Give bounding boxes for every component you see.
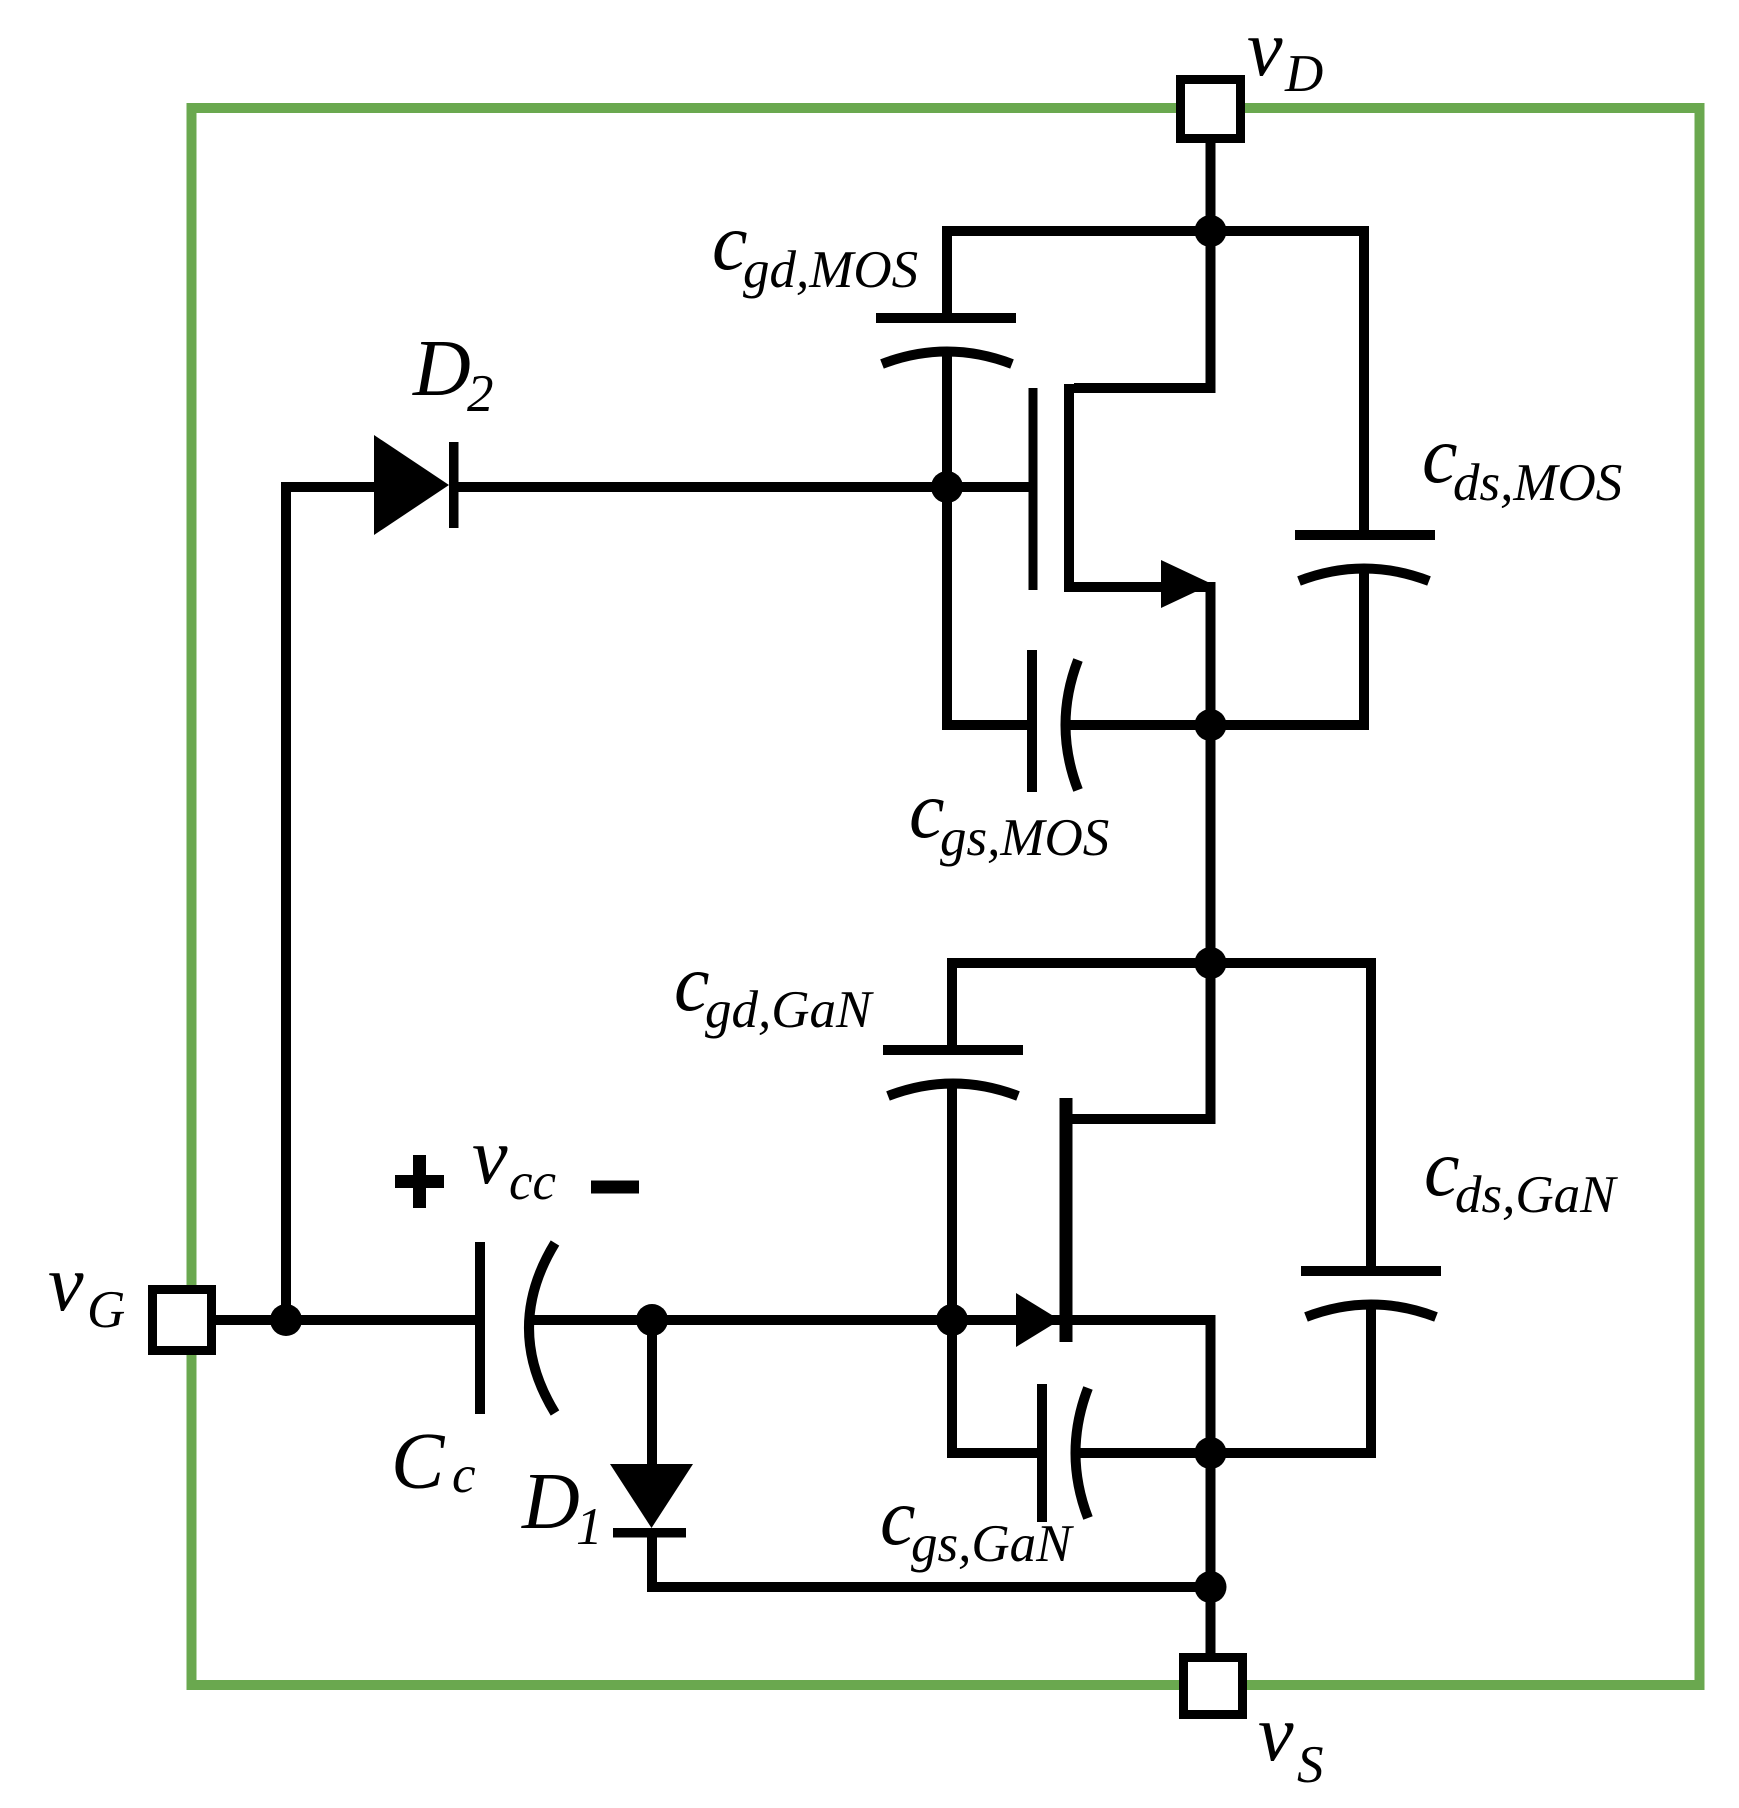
label v_S	[1258, 1690, 1324, 1794]
label Cc	[391, 1418, 476, 1506]
node C junction dot (GaN source)	[1195, 1437, 1227, 1469]
label v_cc	[472, 1113, 556, 1211]
svg-text:D: D	[1284, 45, 1323, 103]
svg-text:ds,MOS: ds,MOS	[1453, 454, 1622, 512]
wire: GaN drain rail with side drops	[952, 963, 1371, 1271]
label plus sign of v_cc	[395, 1155, 444, 1208]
wire: MOS drain lead	[1074, 231, 1211, 388]
label D2	[412, 325, 494, 423]
svg-text:v: v	[472, 1113, 508, 1201]
svg-text:cc: cc	[509, 1153, 556, 1211]
wire: top drain rail with side drops	[947, 231, 1364, 535]
diode D2	[374, 435, 459, 535]
label c_ds,GaN	[1424, 1125, 1618, 1224]
wire: c_ds,MOS bottom run	[1211, 568, 1365, 725]
wire: Cc to GaN gate node	[530, 1315, 952, 1325]
transistor Q2 (GaN HEMT) channel bar	[1060, 1098, 1073, 1342]
wire: MOS gate lead	[947, 482, 1029, 492]
transistor M1 source arrow	[1161, 560, 1212, 608]
svg-text:gs,MOS: gs,MOS	[940, 809, 1109, 867]
svg-text:v: v	[48, 1240, 84, 1328]
node: GaN gate junction dot	[936, 1304, 968, 1336]
node D junction dot (GaN drain)	[1195, 947, 1227, 979]
label c_gd,MOS	[712, 199, 918, 299]
terminal v_G square	[153, 1290, 212, 1351]
svg-text:gd,GaN: gd,GaN	[705, 981, 874, 1039]
wire: GaN gate lead	[952, 1315, 1060, 1325]
wire: c_gs,GaN to source node	[1074, 1448, 1211, 1458]
svg-text:2: 2	[467, 365, 494, 423]
transistor M1 (MOSFET) channel bar	[1064, 384, 1074, 592]
capacitor c_gs,GaN	[1042, 1384, 1088, 1522]
node H junction dot (D1 return)	[1195, 1571, 1227, 1603]
transistor Q2 gate arrow	[1016, 1293, 1060, 1347]
label v_G	[48, 1240, 125, 1339]
label minus sign of v_cc	[591, 1181, 639, 1194]
node B junction dot (MOS source)	[1195, 709, 1227, 741]
wire: GaN drain lead	[1073, 963, 1211, 1119]
label v_D	[1247, 5, 1323, 103]
wire: c_gs,MOS to source node	[1064, 720, 1211, 730]
label c_gs,GaN	[880, 1474, 1074, 1573]
terminal v_D square	[1181, 80, 1241, 139]
wire: c_ds,GaN bottom run	[1211, 1303, 1372, 1453]
capacitor c_ds,MOS	[1295, 535, 1435, 581]
capacitor c_gd,GaN	[883, 1050, 1023, 1096]
node F junction dot (D1 tap)	[636, 1304, 668, 1336]
wire: MOS gate-node left rail and bottom run	[947, 350, 1032, 725]
svg-text:v: v	[1247, 5, 1283, 93]
svg-text:D: D	[521, 1458, 580, 1546]
terminal v_S square	[1184, 1658, 1243, 1715]
wire: D1 anode riser from node F	[647, 1320, 657, 1464]
capacitor c_ds,GaN	[1301, 1271, 1441, 1317]
svg-text:gd,MOS: gd,MOS	[743, 241, 918, 299]
diode D1	[610, 1464, 693, 1538]
wire: MOS source lead	[1074, 587, 1211, 725]
capacitor c_gd,MOS	[876, 318, 1016, 364]
wire: source node C to v_S terminal	[1206, 1453, 1216, 1655]
label c_gs,MOS	[909, 767, 1109, 867]
label c_ds,MOS	[1422, 412, 1622, 512]
label c_gd,GaN	[674, 940, 874, 1039]
node E junction dot (v_G)	[270, 1304, 302, 1336]
svg-text:ds,GaN: ds,GaN	[1455, 1166, 1618, 1224]
wire: middle bus node B to node D	[1206, 725, 1216, 963]
wire: D2 anode riser from node E	[286, 487, 374, 1320]
svg-text:C: C	[391, 1418, 446, 1506]
svg-text:1: 1	[576, 1498, 603, 1556]
wire: v_D terminal lead	[1206, 143, 1216, 231]
wire: GaN source lead	[1073, 1320, 1211, 1453]
wire: v_G input line left of Cc	[216, 1315, 480, 1325]
capacitor Cc (coupling)	[480, 1242, 555, 1414]
node A junction dot (drain rail)	[1195, 215, 1227, 247]
svg-text:S: S	[1297, 1736, 1324, 1794]
capacitor c_gs,MOS	[1032, 650, 1078, 792]
transistor M1 (MOSFET) gate bar	[1029, 388, 1038, 590]
svg-text:gs,GaN: gs,GaN	[911, 1515, 1074, 1573]
svg-text:c: c	[452, 1446, 476, 1504]
wire: GaN gate-node left rail and bottom run	[952, 1082, 1042, 1453]
wire: D1 cathode run to node H	[652, 1533, 1211, 1587]
label D1	[521, 1458, 603, 1556]
node: MOS gate junction dot	[931, 471, 963, 503]
svg-text:G: G	[87, 1281, 125, 1339]
svg-text:D: D	[412, 325, 471, 413]
wire: D2 cathode to MOS gate node	[454, 482, 948, 492]
svg-text:v: v	[1258, 1690, 1294, 1778]
device boundary box	[192, 108, 1700, 1685]
